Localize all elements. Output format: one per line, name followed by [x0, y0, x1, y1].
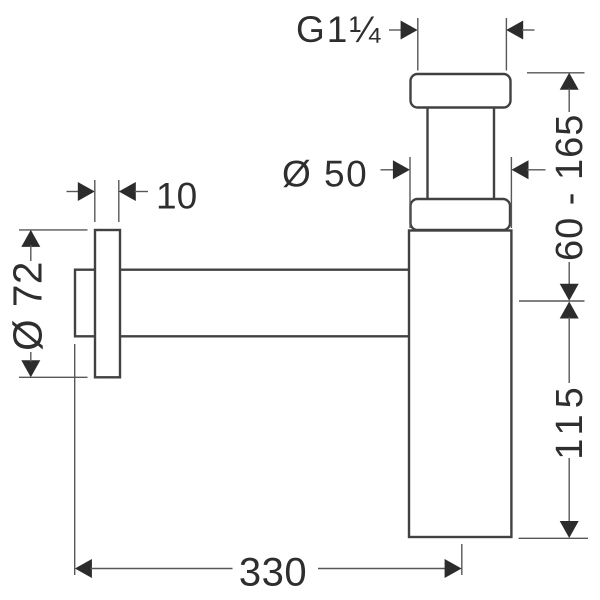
- dimension line G1 1/4 left: [389, 29, 402, 31]
- dimension line 115 lower segment: [568, 458, 570, 522]
- svg-text:115: 115: [549, 381, 591, 460]
- extension line 10 left: [94, 180, 96, 222]
- arrow 115 up: [560, 302, 579, 319]
- arrow 115 down: [560, 521, 579, 538]
- dimension line 10 right: [135, 191, 149, 193]
- dimension line 330 right segment: [318, 568, 446, 570]
- dimension line 330 left segment: [91, 568, 233, 570]
- extension line d50 left: [409, 157, 411, 228]
- extension line 10 right: [118, 180, 120, 222]
- dimension line d50 right: [527, 169, 546, 171]
- arrow 60-165 up: [560, 73, 579, 90]
- extension line 60-165 top: [527, 72, 585, 74]
- horizontal outlet pipe: [75, 270, 409, 337]
- arrow d72 up: [21, 230, 40, 247]
- dimension line d72 upper segment: [30, 245, 32, 261]
- svg-text:G1¼: G1¼: [296, 9, 382, 50]
- siphon riser tube: [428, 90, 495, 205]
- arrow d72 down: [21, 360, 40, 377]
- svg-text:60 - 165: 60 - 165: [549, 114, 591, 261]
- extension line d50 right: [510, 157, 512, 228]
- dimension line 10 left: [67, 191, 81, 193]
- dimension line d50 left: [381, 169, 396, 171]
- arrow 330 right: [445, 559, 462, 578]
- collar nut: [411, 199, 511, 230]
- arrow 10 right: [119, 182, 136, 201]
- extension line G1 1/4 left: [417, 18, 419, 71]
- dimension line 115 upper segment: [568, 317, 570, 383]
- arrow 10 left: [78, 182, 95, 201]
- extension line d72 top: [19, 229, 88, 231]
- arrow 330 left: [75, 559, 92, 578]
- extension line 115 bottom: [519, 537, 588, 539]
- dimension line G1 1/4 right: [522, 29, 535, 31]
- dimension line 60-165 upper segment: [568, 89, 570, 113]
- dimension line 60-165 lower segment: [568, 262, 570, 298]
- top nut fitting: [411, 74, 511, 108]
- junction extension line mid right: [519, 300, 585, 302]
- svg-text:Ø 50: Ø 50: [282, 154, 368, 195]
- extension line G1 1/4 right: [505, 18, 507, 71]
- wall flange: [95, 230, 120, 377]
- trap body cup: [409, 231, 511, 538]
- arrow 60-165 down: [560, 284, 579, 301]
- arrow d50 right: [512, 160, 529, 179]
- extension line 330 right: [461, 544, 463, 575]
- svg-text:Ø 72: Ø 72: [5, 261, 51, 351]
- arrow G1 1/4 right: [506, 21, 523, 40]
- svg-text:10: 10: [156, 176, 197, 217]
- svg-text:330: 330: [239, 551, 307, 595]
- extension line d72 bottom: [19, 376, 88, 378]
- arrow G1 1/4 left: [401, 21, 418, 40]
- dimension line d72 lower segment: [30, 352, 32, 362]
- extension line 330 left: [74, 344, 76, 575]
- arrow d50 left: [393, 160, 410, 179]
